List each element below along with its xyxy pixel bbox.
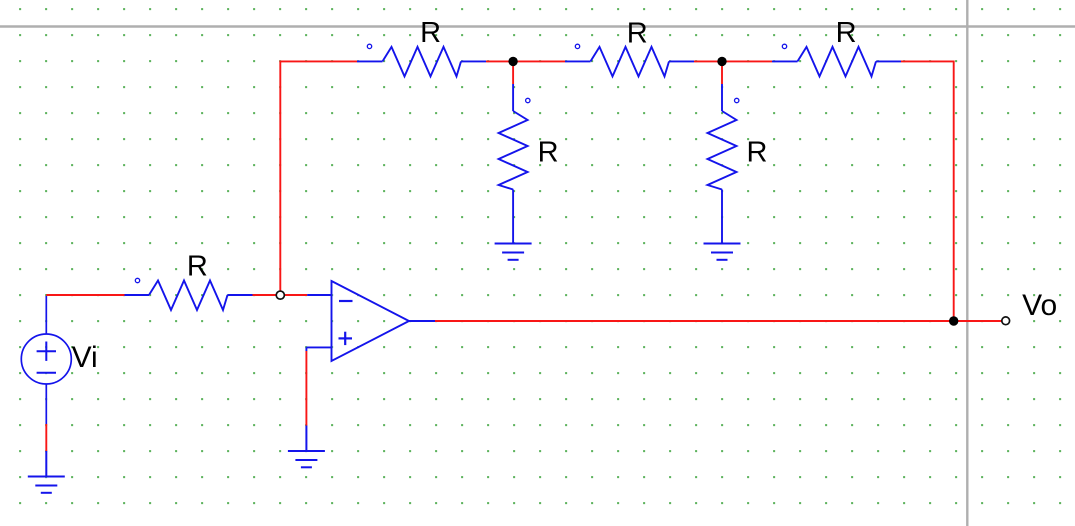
ground under R6 — [704, 244, 741, 260]
junction J2 — [717, 57, 726, 66]
svg-text:R: R — [747, 137, 768, 169]
wire J1 to R3 — [513, 60, 565, 62]
junction J1 — [508, 57, 517, 66]
svg-text:R: R — [836, 17, 857, 49]
svg-text:R: R — [627, 17, 648, 49]
wire R3 to junction J2 — [694, 60, 722, 62]
wire node A up to feedback row — [280, 61, 357, 291]
wire J2 to R4 — [722, 60, 772, 62]
wire R1 to node A — [253, 294, 281, 296]
resistor R4 — [772, 44, 901, 76]
resistor R6 — [708, 84, 739, 244]
wire Vi to R1 — [46, 294, 124, 296]
wire R4 to output column — [901, 61, 954, 321]
wire op-amp output to Vo — [435, 320, 1002, 322]
resistor R2 — [357, 44, 486, 76]
node Vo open circle — [1002, 317, 1010, 325]
resistor R3 — [565, 44, 694, 76]
svg-text:Vo: Vo — [1022, 289, 1057, 322]
svg-text:R: R — [187, 251, 208, 283]
ground under R5 — [495, 244, 532, 260]
resistor R1 — [125, 278, 253, 310]
op-amp U1 — [306, 281, 435, 361]
wire J1 down to R5 — [512, 61, 514, 84]
wire node A to op-amp minus — [280, 294, 307, 296]
node A open circle — [276, 291, 284, 299]
wire J2 down to R6 — [721, 61, 723, 84]
wire R2 to junction J1 — [486, 60, 513, 62]
wire op-amp plus to ground — [305, 351, 307, 426]
svg-text:R: R — [420, 17, 441, 49]
ground under Vi — [28, 451, 65, 493]
junction J3 output — [949, 316, 958, 325]
source Vi — [21, 296, 71, 424]
svg-text:Vi: Vi — [72, 341, 98, 374]
resistor R5 — [499, 84, 530, 244]
ground under op-amp plus input — [288, 426, 325, 468]
wire Vi bottom to ground — [45, 424, 47, 451]
svg-text:R: R — [538, 137, 559, 169]
